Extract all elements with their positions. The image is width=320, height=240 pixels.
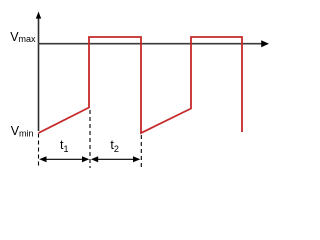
x-axis (time axis) with right arrow bbox=[38, 40, 269, 47]
dashed guide at end of t2 bbox=[140, 135, 142, 167]
t2 dimension arrow bbox=[91, 156, 140, 162]
dashed guide at t=0 (below axis origin) bbox=[38, 134, 40, 169]
y-axis (voltage axis) bbox=[36, 12, 41, 132]
dashed guide at end of t1 bbox=[89, 110, 91, 168]
waveform (red sawtooth/pulse trace) bbox=[39, 37, 243, 133]
t1 dimension arrow bbox=[39, 156, 89, 162]
